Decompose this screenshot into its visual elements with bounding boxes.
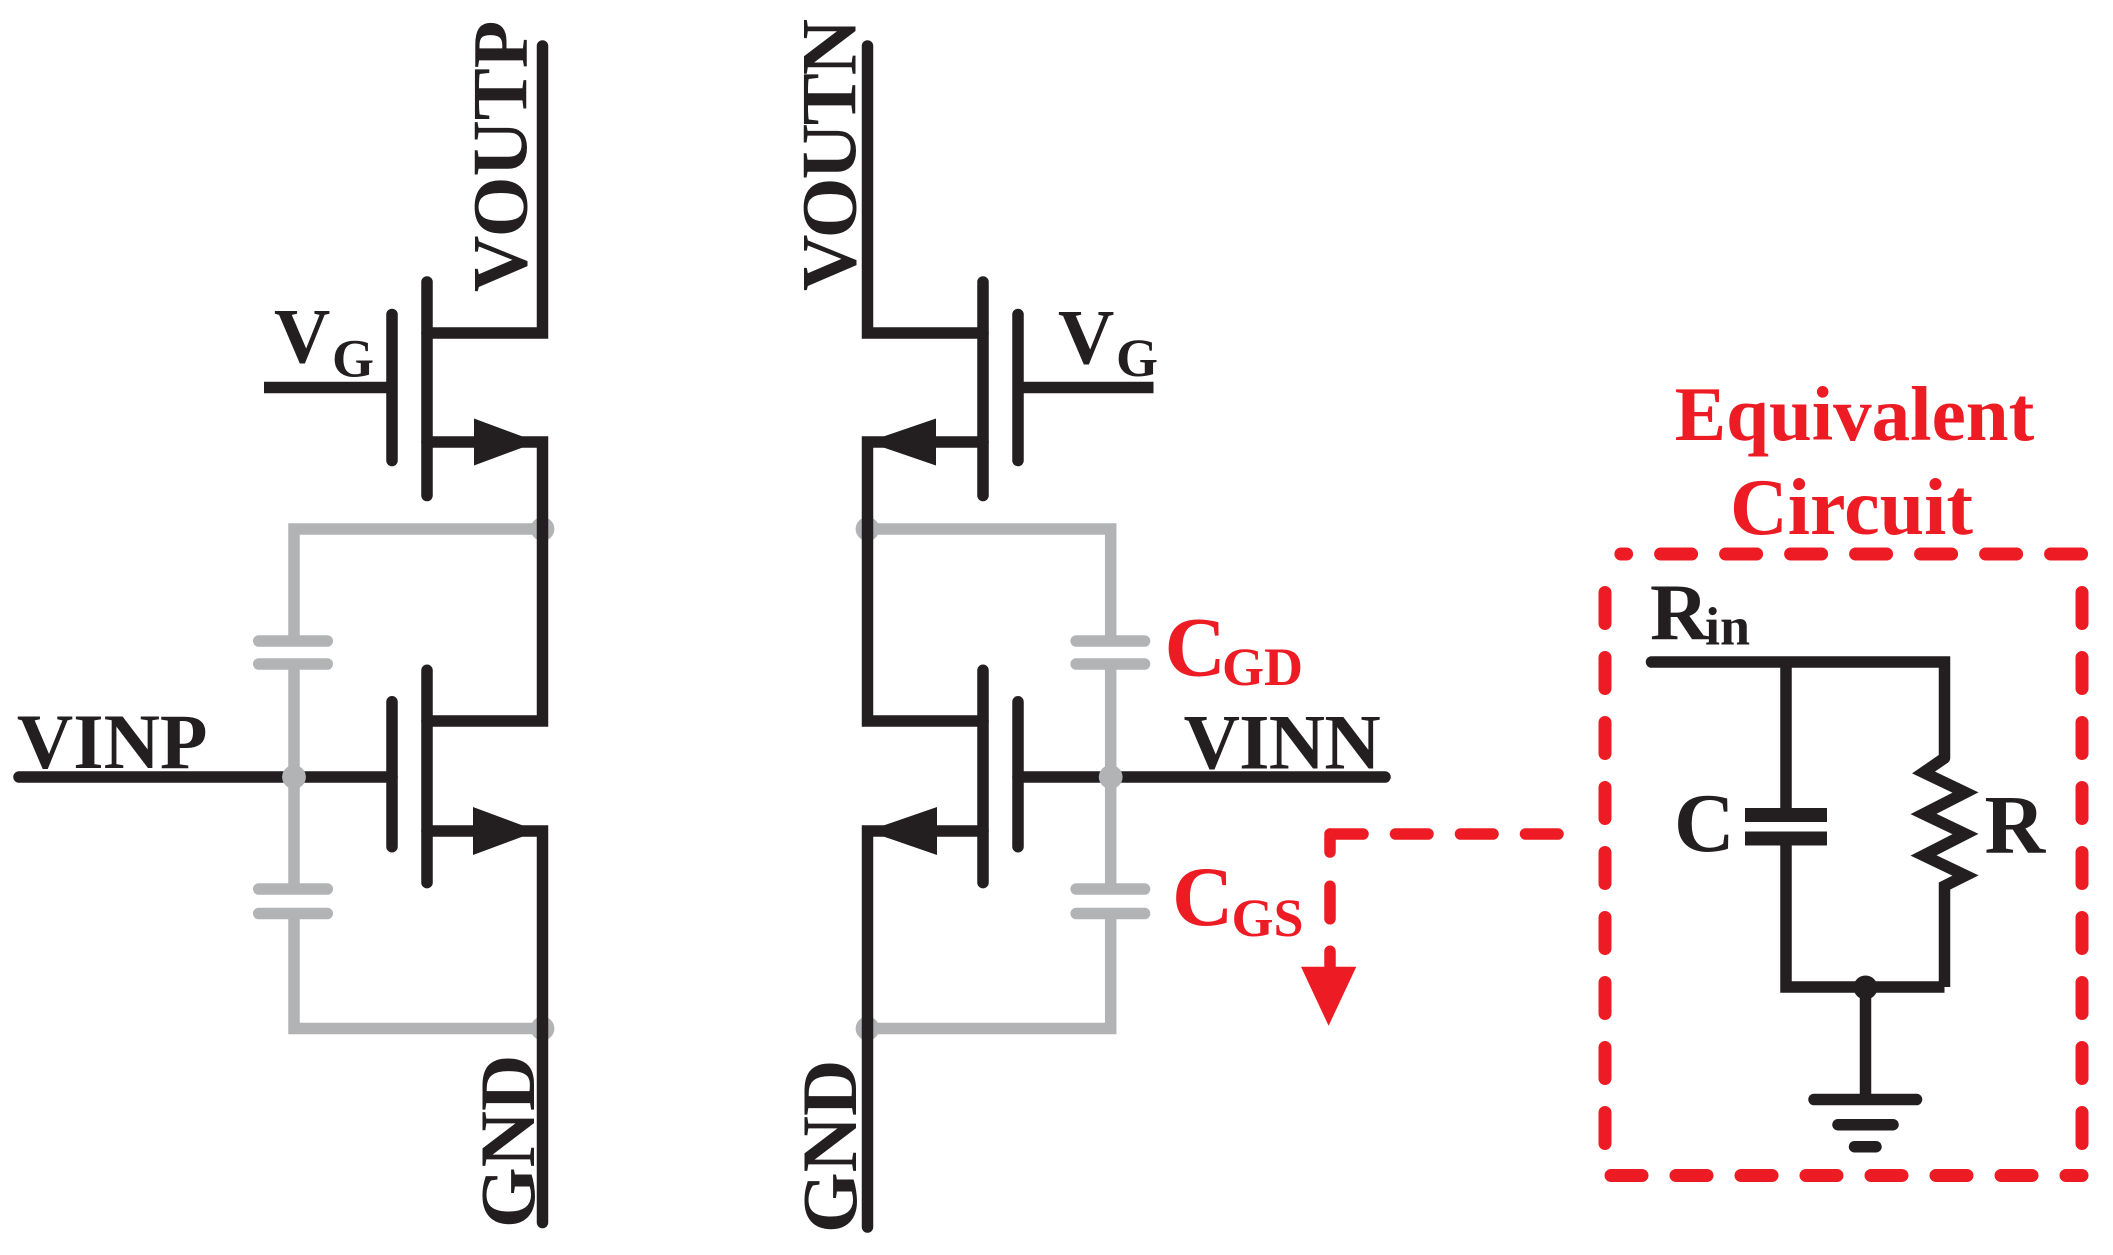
svg-text:R: R	[1650, 567, 1710, 657]
node equivalent-circuit ground node	[1854, 976, 1878, 1000]
resistor R zigzag	[1924, 758, 1966, 987]
arrow red down	[1301, 967, 1356, 1026]
capacitor C plate 2	[1745, 832, 1827, 846]
wire gray between CGD and CGS (left)	[288, 664, 300, 889]
capacitor CGS plate 1	[1076, 883, 1144, 895]
capacitor C plate 1	[1745, 808, 1827, 822]
capacitor CGD plate 1	[1076, 635, 1144, 647]
node gray junction source (middle)	[856, 1017, 880, 1041]
svg-text:G: G	[332, 329, 374, 389]
wire capacitor C to node	[1786, 846, 1945, 988]
svg-text:GS: GS	[1232, 888, 1304, 948]
wire VINP input wire	[19, 771, 392, 783]
svg-text:VINN: VINN	[1184, 699, 1381, 786]
svg-text:GD: GD	[1222, 637, 1303, 697]
transistor M3 channel bar	[421, 670, 433, 882]
wire VG gate wire (M1)	[264, 382, 392, 394]
node gray junction drain (left)	[531, 517, 555, 541]
ground bar 3	[1855, 1141, 1877, 1153]
transistor M2 gate bar	[1012, 315, 1024, 461]
wire gray gate-source loop lower (middle)	[868, 914, 1111, 1029]
node gray junction gate VINN	[1099, 765, 1123, 789]
svg-text:C: C	[1674, 777, 1735, 870]
wire red dashed connector vertical	[1324, 886, 1336, 975]
node gray junction source (left)	[531, 1017, 555, 1041]
transistor M1 gate bar	[386, 315, 398, 461]
svg-text:GND: GND	[464, 1055, 551, 1228]
svg-text:VOUTP: VOUTP	[457, 21, 544, 292]
wire VOUTN drain wire	[868, 46, 984, 333]
wire capacitor C stub	[1780, 662, 1792, 809]
wire VINN input wire	[1018, 771, 1385, 783]
ground stem	[1860, 987, 1872, 1100]
svg-text:Circuit: Circuit	[1730, 464, 1973, 552]
box red dashed border right	[2076, 560, 2089, 1176]
wire gray gate-drain loop upper (middle)	[868, 529, 1111, 641]
ground bar 2	[1838, 1119, 1893, 1131]
svg-text:VOUTN: VOUTN	[786, 19, 873, 291]
box red dashed border top	[1621, 548, 2082, 561]
capacitor CGD plate 2	[1076, 658, 1144, 670]
wire Rin input	[1652, 662, 1945, 758]
svg-text:GND: GND	[786, 1060, 873, 1233]
wire M1 source to M3 drain	[427, 442, 543, 721]
transistor M1 channel bar	[421, 282, 433, 496]
capacitor CGD left plate 2	[259, 658, 328, 670]
svg-text:G: G	[1116, 328, 1158, 388]
capacitor CGS left plate 2	[259, 908, 328, 920]
svg-text:in: in	[1705, 596, 1750, 656]
svg-text:V: V	[1058, 294, 1114, 381]
arrow source M2	[868, 419, 937, 466]
wire gray between CGD and CGS (middle)	[1105, 664, 1117, 889]
node gray junction drain (middle)	[856, 517, 880, 541]
wire M2 source to M4 drain	[868, 442, 984, 721]
node gray junction gate VINP	[282, 765, 306, 789]
box red dashed border bottom	[1611, 1169, 2082, 1182]
wire gray gate-drain loop upper (left)	[294, 529, 543, 641]
svg-text:Equivalent: Equivalent	[1675, 371, 2035, 457]
wire red dashed connector horizontal	[1330, 828, 1558, 840]
svg-text:C: C	[1165, 601, 1226, 695]
transistor M4 channel bar	[977, 670, 989, 882]
capacitor CGD left plate 1	[259, 635, 328, 647]
svg-text:VINP: VINP	[17, 698, 208, 785]
svg-text:C: C	[1172, 850, 1233, 944]
svg-text:V: V	[274, 292, 330, 379]
svg-text:R: R	[1985, 779, 2047, 872]
capacitor CGS left plate 1	[259, 883, 328, 895]
ground bar 1	[1814, 1094, 1917, 1106]
wire VOUTP drain wire	[427, 46, 543, 333]
arrow source M3	[473, 807, 538, 855]
box red dashed border left	[1599, 560, 1612, 1176]
capacitor CGS plate 2	[1076, 908, 1144, 920]
wire M4 source to GND	[868, 831, 984, 1227]
transistor M3 gate bar	[386, 702, 398, 847]
wire red dashed corner stub	[1324, 834, 1336, 852]
arrow source M1	[474, 419, 538, 466]
wire gray gate-source loop lower (left)	[294, 914, 543, 1029]
transistor M2 channel bar	[977, 282, 989, 496]
arrow source M4	[868, 807, 938, 855]
wire M3 source to GND	[427, 831, 543, 1223]
transistor M4 gate bar	[1012, 702, 1024, 847]
wire VG gate wire (M2)	[1018, 382, 1154, 394]
